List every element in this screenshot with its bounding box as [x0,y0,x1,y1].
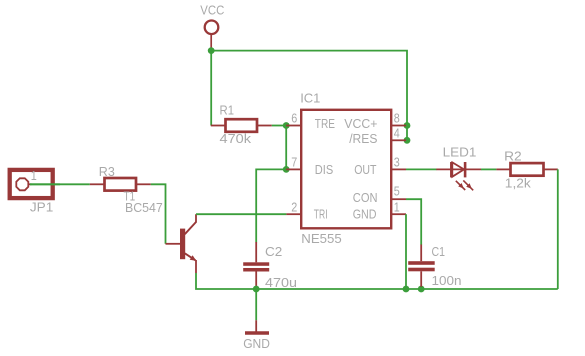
svg-text:8: 8 [394,111,400,126]
wire pin6 to pin7 [285,126,287,170]
wire JP1 to R3 [30,183,90,185]
svg-text:1,2k: 1,2k [505,176,532,191]
svg-text:OUT: OUT [354,162,376,177]
svg-text:VCC: VCC [200,3,224,18]
svg-text:LED1: LED1 [443,145,477,160]
wire GND drop [255,289,257,320]
svg-text:5: 5 [394,183,400,198]
wire pin7 to C2 [256,169,286,242]
wire R1 to pin 6 [272,125,286,127]
wire JP1 over-border pass [30,183,60,185]
svg-text:BC547: BC547 [125,200,163,215]
junction pin 1 ground [403,286,410,293]
svg-text:C2: C2 [265,244,282,259]
wire VCC down to R1 [210,51,212,126]
junction C2 ground [253,286,260,293]
svg-text:R1: R1 [220,103,235,118]
resistor R3 [90,178,151,191]
wire VCC net top [211,51,407,141]
junction pin 4 [404,137,411,144]
svg-text:/RES: /RES [349,131,378,146]
svg-text:6: 6 [291,111,297,126]
svg-text:7: 7 [291,155,297,170]
svg-text:100n: 100n [432,273,462,288]
svg-text:CON: CON [353,190,378,205]
svg-text:470k: 470k [220,131,252,146]
svg-text:VCC+: VCC+ [344,116,377,131]
junction pin 6 [283,122,290,129]
diode LED1 [436,162,481,190]
wire LED1 to R2 [481,168,496,170]
svg-text:TRI: TRI [314,206,328,221]
svg-text:NE555: NE555 [301,231,341,246]
wire R2 to ground bus [557,169,559,289]
svg-text:TRE: TRE [315,116,335,131]
svg-text:GND: GND [243,336,270,351]
wire R3 to T1 base [151,184,166,244]
svg-text:4: 4 [394,125,400,140]
junction C1 ground [418,286,425,293]
resistor R2 [496,163,557,176]
svg-text:R2: R2 [504,148,522,163]
junction VCC [208,47,215,54]
svg-text:C1: C1 [432,244,446,259]
svg-text:IC1: IC1 [300,91,320,106]
wire T1 collector to pin 2 (TRI) [196,213,286,215]
junction pin 8 [404,122,411,129]
svg-text:1: 1 [31,168,37,183]
wire pin 1 to ground bus [405,214,407,289]
svg-text:JP1: JP1 [30,199,53,214]
capacitor C2 [243,242,269,287]
wire ground bus [196,273,558,289]
svg-text:1: 1 [394,200,400,215]
power symbol VCC [205,21,219,51]
svg-text:2: 2 [291,200,297,215]
svg-text:R3: R3 [99,164,115,179]
svg-text:DIS: DIS [315,162,334,177]
wire pin 5 to C1 [406,199,421,245]
junction pin 7 [283,166,290,173]
svg-text:3: 3 [394,155,400,170]
connector JP1 [10,170,53,198]
resistor R1 [211,119,272,132]
wire pin 3 (OUT) to LED1 [406,168,437,170]
svg-text:470u: 470u [265,275,297,290]
transistor T1 [166,214,197,273]
capacitor C1 [408,245,435,287]
op IC1 NE555 body [286,110,406,229]
svg-text:GND: GND [353,206,377,221]
ground symbol GND [245,320,269,333]
